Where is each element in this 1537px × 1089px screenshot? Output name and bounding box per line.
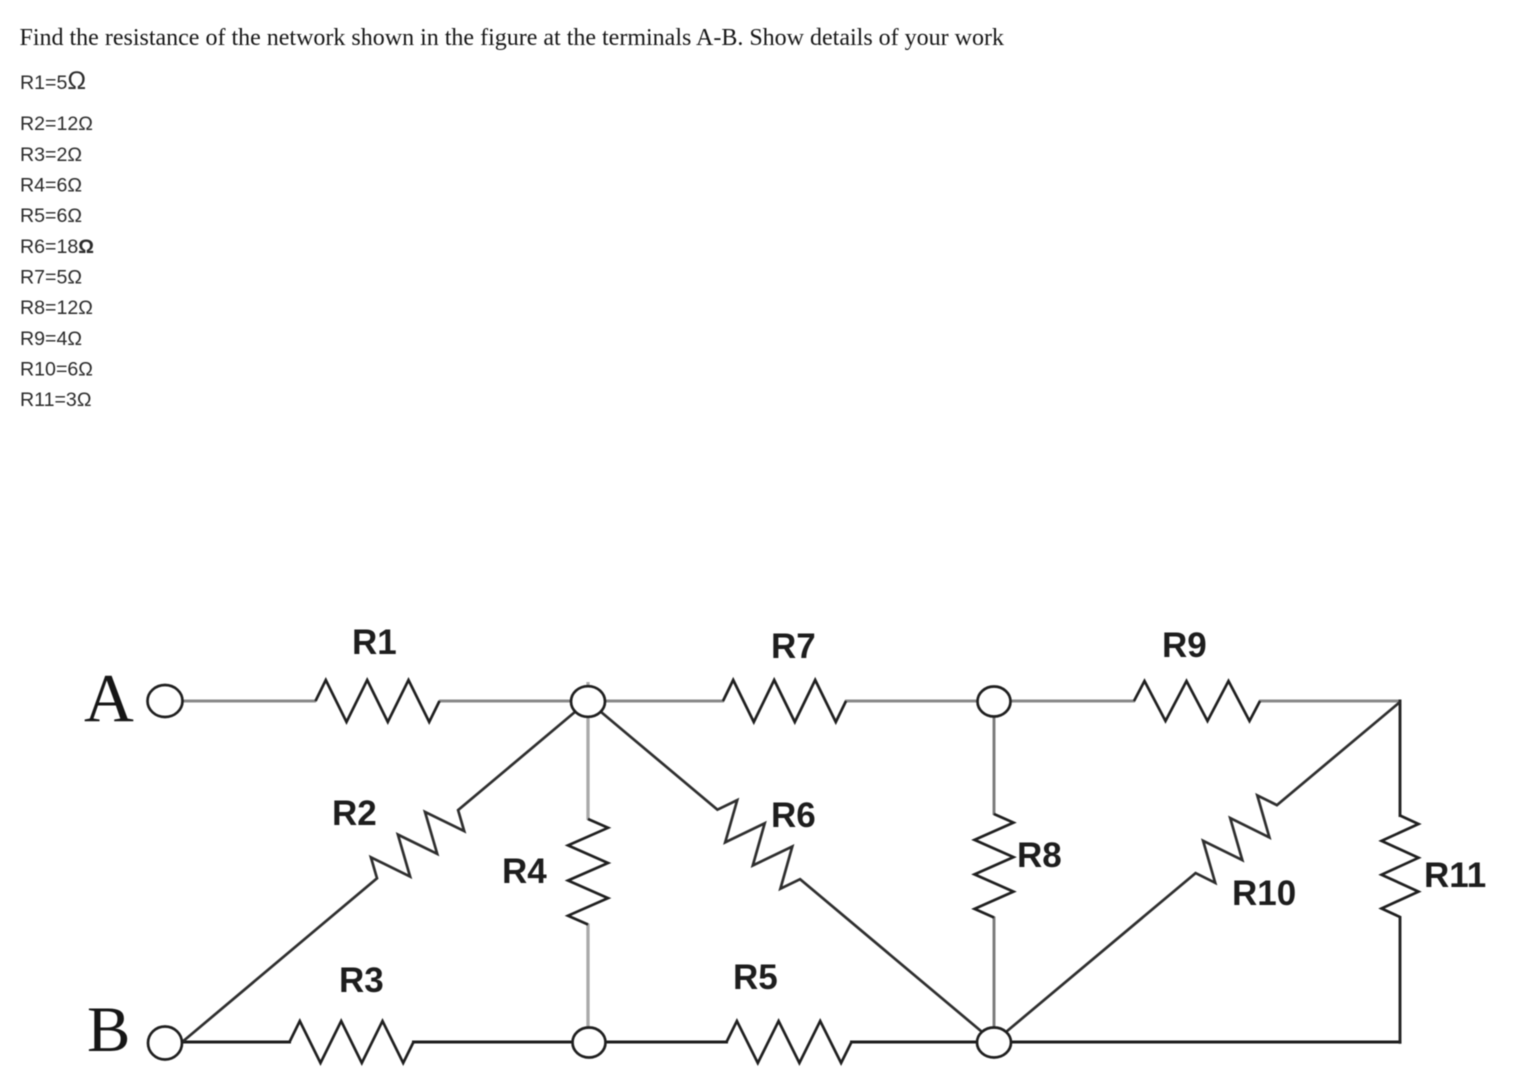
svg-text:R1=5Ω: R1=5Ω <box>20 67 86 95</box>
wire node N2 to R9 <box>994 700 1135 703</box>
node N4 circle (bottom right-middle) <box>977 1028 1011 1058</box>
wire R8 vertical upper lead (node N2 down, gray) <box>993 701 996 815</box>
wire R4 vertical lower lead <box>586 924 589 1043</box>
svg-text:R3: R3 <box>339 961 384 1000</box>
wire node N3 to R5 <box>589 1040 728 1043</box>
svg-text:R5: R5 <box>733 958 778 997</box>
svg-text:R6: R6 <box>771 796 816 835</box>
svg-text:R11=3Ω: R11=3Ω <box>20 389 91 411</box>
svg-text:R5=6Ω: R5=6Ω <box>20 205 82 227</box>
resistor R8 <box>975 814 1014 918</box>
wire R8 vertical lower lead <box>993 917 996 1043</box>
resistor R4 <box>568 819 608 925</box>
svg-text:R4: R4 <box>502 852 547 891</box>
resistor R2 (diagonal B to N1) <box>181 701 588 1043</box>
wire right vertical upper (corner to R11) <box>1399 700 1402 818</box>
resistor R3 <box>290 1021 414 1063</box>
wire bottom B to R3 (black) <box>181 1040 291 1043</box>
svg-text:R1: R1 <box>352 623 397 662</box>
wire R9 to top-right corner <box>1259 700 1400 703</box>
wire R5 to bottom node N4 <box>850 1040 994 1043</box>
svg-text:R8=12Ω: R8=12Ω <box>20 297 93 319</box>
wire A to R1 (top, gray) <box>182 700 316 703</box>
svg-text:R6=18Ω: R6=18Ω <box>20 236 94 258</box>
svg-text:R7=5Ω: R7=5Ω <box>20 267 82 289</box>
svg-text:R4=6Ω: R4=6Ω <box>20 175 82 197</box>
svg-text:R10=6Ω: R10=6Ω <box>20 359 93 381</box>
svg-text:R8: R8 <box>1017 836 1062 875</box>
node N3 circle (bottom middle) <box>573 1028 606 1058</box>
svg-text:R2: R2 <box>332 794 377 833</box>
svg-text:R2=12Ω: R2=12Ω <box>20 113 93 135</box>
svg-text:R7: R7 <box>771 627 816 666</box>
wire R3 to bottom node N3 <box>412 1040 589 1043</box>
resistor R5 <box>727 1021 852 1063</box>
svg-text:R11: R11 <box>1424 856 1486 895</box>
wire R1 to node N1 <box>439 700 588 703</box>
svg-text:R10: R10 <box>1232 874 1296 913</box>
wire right vertical lower (R11 to bottom corner) <box>1399 916 1402 1044</box>
resistor R10 (diagonal N4 to top-right corner) <box>994 702 1400 1042</box>
svg-text:R3=2Ω: R3=2Ω <box>20 144 82 166</box>
wire R4 vertical upper lead (node N1 down, light gray) <box>586 682 589 820</box>
resistor R9 <box>1134 681 1260 721</box>
resistor R11 <box>1382 816 1419 918</box>
terminal B circle <box>148 1027 182 1060</box>
wire node N1 to R7 <box>588 700 724 703</box>
svg-text:Find the resistance of the net: Find the resistance of the network shown… <box>20 25 1004 51</box>
svg-text:R9=4Ω: R9=4Ω <box>20 328 82 350</box>
resistor R6 (diagonal N1 to N4) <box>588 701 994 1042</box>
wire node N4 to bottom-right corner <box>994 1040 1402 1043</box>
node N1 circle (top middle) <box>571 686 605 717</box>
wire R7 to node N2 <box>845 700 994 703</box>
node N2 circle (top right-middle) <box>978 687 1011 717</box>
resistor R1 <box>316 680 440 722</box>
svg-text:B: B <box>87 994 130 1066</box>
svg-text:A: A <box>84 660 134 736</box>
resistor R7 <box>723 680 846 722</box>
svg-text:R9: R9 <box>1162 626 1207 665</box>
terminal A circle <box>148 685 183 717</box>
